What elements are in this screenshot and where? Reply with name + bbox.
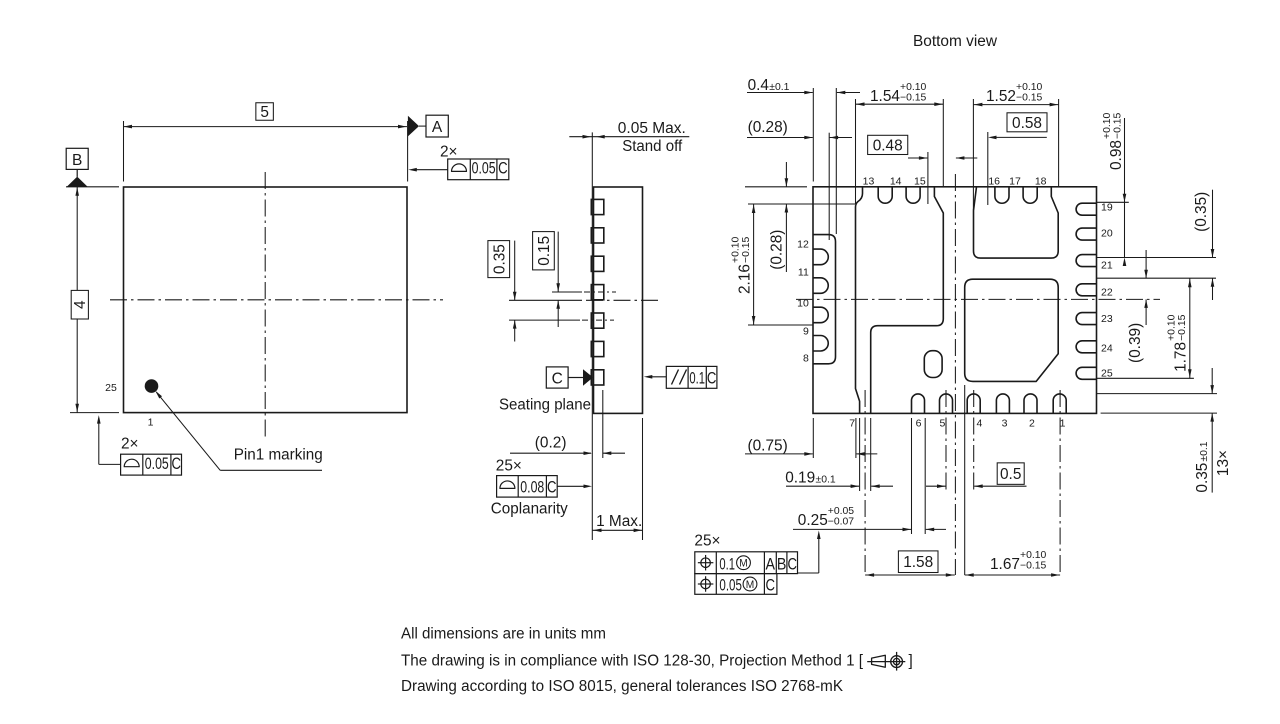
svg-text:15: 15 [914, 176, 926, 188]
svg-text:9: 9 [803, 326, 809, 338]
svg-text:0.98: 0.98 [1108, 140, 1125, 170]
svg-text:Seating plane: Seating plane [499, 397, 591, 414]
svg-text:3: 3 [1002, 418, 1008, 430]
svg-text:0.19: 0.19 [785, 470, 815, 487]
svg-text:0.25: 0.25 [798, 512, 828, 529]
svg-text:0.05: 0.05 [472, 159, 496, 178]
svg-text:19: 19 [1101, 202, 1113, 214]
svg-text:−0.15: −0.15 [900, 93, 927, 104]
svg-text:0.1: 0.1 [719, 554, 735, 573]
svg-text:14: 14 [890, 176, 902, 188]
svg-text:11: 11 [798, 267, 809, 279]
svg-text:0.05: 0.05 [145, 454, 169, 473]
svg-text:8: 8 [803, 353, 809, 365]
svg-text:Stand off: Stand off [622, 138, 683, 155]
svg-text:1 Max.: 1 Max. [596, 513, 642, 530]
svg-text:(0.28): (0.28) [748, 119, 788, 136]
svg-text:−0.07: −0.07 [828, 517, 855, 528]
svg-text:18: 18 [1035, 176, 1047, 188]
svg-text:Pin1 marking: Pin1 marking [234, 447, 323, 464]
svg-text:13: 13 [863, 176, 875, 188]
svg-text:22: 22 [1101, 287, 1113, 299]
svg-text:13×: 13× [1215, 450, 1232, 476]
svg-text:2: 2 [1029, 418, 1035, 430]
svg-text:0.4: 0.4 [748, 77, 770, 94]
svg-text:Coplanarity: Coplanarity [491, 501, 568, 518]
svg-text:C: C [707, 369, 717, 388]
svg-text:17: 17 [1009, 176, 1021, 188]
svg-text:24: 24 [1101, 343, 1113, 355]
svg-text:6: 6 [916, 418, 922, 430]
svg-text:The drawing is in compliance w: The drawing is in compliance with ISO 12… [401, 653, 864, 670]
svg-text:4: 4 [976, 418, 982, 430]
svg-text:C: C [547, 478, 557, 497]
svg-text:1.67: 1.67 [990, 556, 1020, 573]
svg-text:0.48: 0.48 [873, 137, 903, 154]
svg-text:2.16: 2.16 [737, 264, 754, 294]
svg-text:23: 23 [1101, 313, 1113, 325]
svg-text:All dimensions are in units mm: All dimensions are in units mm [401, 625, 606, 642]
svg-text:0.5: 0.5 [1000, 466, 1021, 483]
svg-text:21: 21 [1101, 260, 1113, 272]
svg-text:−0.15: −0.15 [1016, 93, 1043, 104]
svg-text:−0.15: −0.15 [1177, 314, 1188, 341]
svg-text:C: C [498, 159, 508, 178]
svg-text:−0.15: −0.15 [1113, 112, 1124, 139]
svg-text:2×: 2× [121, 436, 139, 453]
svg-text:C: C [171, 454, 181, 473]
svg-text:(0.75): (0.75) [748, 437, 788, 454]
svg-text:1.58: 1.58 [903, 554, 933, 571]
svg-text:C: C [766, 575, 776, 594]
svg-text:1.78: 1.78 [1173, 342, 1190, 372]
svg-text:2×: 2× [440, 144, 458, 161]
svg-text:0.08: 0.08 [520, 478, 544, 497]
svg-text:(0.28): (0.28) [769, 230, 786, 270]
svg-text:]: ] [909, 653, 913, 670]
svg-text:(0.39): (0.39) [1127, 323, 1144, 363]
svg-text:±0.1: ±0.1 [816, 475, 836, 486]
svg-text:0.35: 0.35 [491, 244, 508, 274]
svg-text:A: A [766, 554, 776, 573]
svg-text:0.35: 0.35 [1194, 463, 1211, 493]
svg-text:10: 10 [797, 298, 809, 310]
svg-text:B: B [72, 152, 82, 169]
svg-text:0.05: 0.05 [719, 575, 742, 594]
svg-text:25: 25 [105, 382, 117, 394]
svg-text:(0.35): (0.35) [1193, 192, 1210, 232]
svg-text:M: M [739, 558, 748, 570]
svg-text:16: 16 [988, 176, 1000, 188]
svg-text:A: A [432, 119, 443, 136]
svg-text:1.54: 1.54 [870, 88, 900, 105]
svg-text:−0.15: −0.15 [741, 236, 752, 263]
svg-text:0.05 Max.: 0.05 Max. [618, 120, 686, 137]
svg-text:12: 12 [797, 239, 809, 251]
svg-text:Bottom view: Bottom view [913, 33, 998, 50]
svg-text:−0.15: −0.15 [1020, 560, 1047, 571]
svg-text:0.1: 0.1 [689, 369, 705, 388]
svg-text:(0.2): (0.2) [535, 434, 567, 451]
svg-text:Drawing according to ISO 8015,: Drawing according to ISO 8015, general t… [401, 678, 844, 695]
svg-text:0.58: 0.58 [1012, 115, 1042, 132]
svg-text:25×: 25× [694, 533, 720, 550]
svg-text:7: 7 [849, 418, 855, 430]
svg-text:5: 5 [260, 104, 269, 121]
svg-text:C: C [787, 554, 797, 573]
svg-text:4: 4 [72, 300, 89, 309]
svg-text:20: 20 [1101, 228, 1113, 240]
svg-text:±0.1: ±0.1 [769, 82, 789, 93]
svg-text:±0.1: ±0.1 [1199, 441, 1210, 461]
svg-text:1: 1 [148, 417, 154, 429]
svg-text:5: 5 [939, 418, 945, 430]
svg-text:B: B [777, 554, 787, 573]
svg-text:1.52: 1.52 [986, 88, 1016, 105]
svg-text:M: M [746, 579, 755, 591]
svg-text:C: C [552, 370, 563, 387]
svg-text:25×: 25× [496, 458, 522, 475]
svg-text:0.15: 0.15 [536, 236, 553, 266]
